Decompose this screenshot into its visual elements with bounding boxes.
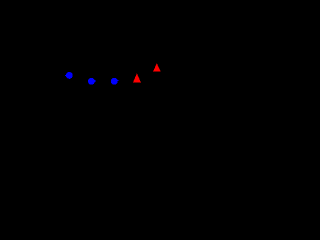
blue dot marker 2 (88, 78, 96, 85)
blue dot marker 1 (65, 72, 73, 79)
red triangle marker 1 (133, 73, 141, 82)
blue dot marker 3 (111, 78, 119, 85)
scatter field on black background (0, 0, 218, 141)
red triangle marker 2 (153, 63, 161, 71)
